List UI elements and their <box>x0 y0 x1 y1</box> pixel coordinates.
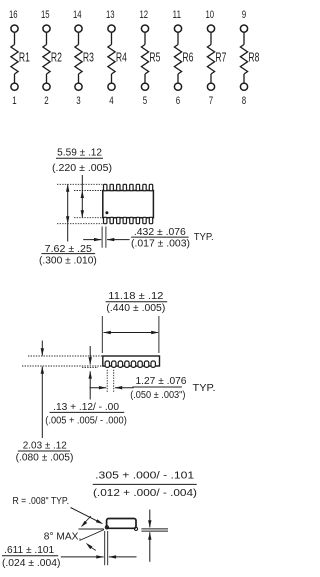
svg-text:11.18 ± .12: 11.18 ± .12 <box>108 291 164 302</box>
svg-text:9: 9 <box>242 9 246 21</box>
fraction bar for .13 dimension <box>50 411 125 413</box>
pin 1 index dot <box>105 211 108 214</box>
package top view pin 3 (bottom row) <box>117 217 120 223</box>
wire from resistor to bottom terminal <box>78 74 80 83</box>
terminal circle pin 15 <box>43 25 50 32</box>
side view lead 4 (end loop) <box>125 361 129 367</box>
svg-text:16: 16 <box>9 9 18 21</box>
wire from top terminal to resistor <box>243 32 245 44</box>
resistor R7 zigzag body <box>207 45 214 75</box>
svg-text:R = .008" TYP.: R = .008" TYP. <box>13 496 70 507</box>
svg-text:15: 15 <box>41 9 50 21</box>
resistor R2 zigzag body <box>43 45 50 75</box>
package top view pin 8 (bottom row) <box>149 217 152 223</box>
wire from top terminal to resistor <box>14 32 16 44</box>
dimension line 7.62mm overall (vertical, left) <box>67 184 69 223</box>
wire from top terminal to resistor <box>78 32 80 44</box>
dimension .13 standoff: upper arrow <box>89 346 91 365</box>
wire from top terminal to resistor <box>111 32 113 44</box>
side view lead 2 (end loop) <box>112 361 116 367</box>
extension line: lead seating plane (short) <box>82 367 98 369</box>
fraction bar for 5.59 dimension <box>56 157 103 159</box>
side view lead 8 (end loop) <box>151 361 155 367</box>
terminal circle pin 3 <box>75 83 82 90</box>
fraction bar for .305 dimension <box>93 483 197 485</box>
resistor R1 network column: pin 16 top, pin 1 bottom <box>9 9 30 107</box>
package top view pin 11 (top row) <box>136 184 139 190</box>
svg-text:(.300 ± .010): (.300 ± .010) <box>39 256 97 267</box>
arrow right of .611 gauge <box>109 556 137 558</box>
seating plane line (upper) <box>141 528 168 530</box>
package top view pin 4 (bottom row) <box>123 217 126 223</box>
svg-text:TYP.: TYP. <box>193 383 216 394</box>
svg-text:.611 ± .101: .611 ± .101 <box>4 545 54 556</box>
extension line: body top edge <box>74 190 102 192</box>
lead corner radius bump right <box>134 527 137 530</box>
fraction bar for 11.18 dimension <box>106 301 168 303</box>
extension line: top pin tips <box>57 183 103 185</box>
dimension .305 lead thickness: lower arrow <box>149 532 151 562</box>
svg-text:(.220 ± .005): (.220 ± .005) <box>52 163 112 174</box>
resistor R2 network column: pin 15 top, pin 2 bottom <box>41 9 62 107</box>
side view lead 7 (end loop) <box>144 361 148 367</box>
horizontal reference line for lead angle <box>79 528 104 530</box>
package top view: IC body outline <box>103 191 154 218</box>
wire from resistor to bottom terminal <box>111 74 113 83</box>
fraction bar for 2.03 dimension <box>18 450 70 452</box>
dimension line 5.59mm body width (vertical) <box>81 175 83 218</box>
resistor R1 zigzag body <box>11 45 18 75</box>
svg-text:13: 13 <box>106 9 115 21</box>
wire from resistor to bottom terminal <box>210 74 212 83</box>
svg-text:14: 14 <box>73 9 82 21</box>
resistor R4 network column: pin 13 top, pin 4 bottom <box>106 9 127 107</box>
arrow left of .432 gauge <box>83 239 101 241</box>
extension line: body left edge (vertical) <box>101 316 103 353</box>
extension line: bottom pin tips <box>57 223 103 225</box>
package top view pin 5 (bottom row) <box>130 217 133 223</box>
svg-text:5: 5 <box>143 95 147 107</box>
dimension line 11.18 horizontal double arrow <box>104 332 159 334</box>
svg-text:R6: R6 <box>182 50 193 64</box>
package side view: body outline <box>103 356 160 366</box>
terminal circle pin 1 <box>11 83 18 90</box>
svg-text:.305 + .000/ - .101: .305 + .000/ - .101 <box>95 470 195 481</box>
arrow left of .611 gauge <box>61 556 104 558</box>
fraction bar for .611 dimension <box>2 555 58 557</box>
package top view pin 14 (top row) <box>117 184 120 190</box>
svg-text:5.59 ± .12: 5.59 ± .12 <box>57 148 102 159</box>
svg-text:R8: R8 <box>248 50 259 64</box>
svg-text:(.024 ± .004): (.024 ± .004) <box>2 558 60 569</box>
wire from resistor to bottom terminal <box>144 74 146 83</box>
wire from top terminal to resistor <box>46 32 48 44</box>
svg-text:2: 2 <box>44 95 48 107</box>
angle arrow upper (points to reference line) <box>85 516 91 523</box>
svg-text:11: 11 <box>173 9 182 21</box>
resistor R8 network column: pin 9 top, pin 8 bottom <box>240 9 259 107</box>
svg-text:(.050 ± .003"): (.050 ± .003") <box>130 390 185 401</box>
package top view pin 16 (top row) <box>104 184 107 190</box>
svg-text:(.005 + .005/ - .000): (.005 + .005/ - .000) <box>45 416 127 427</box>
resistor R8 zigzag body <box>240 45 247 75</box>
wire from resistor to bottom terminal <box>14 74 16 83</box>
resistor R3 network column: pin 14 top, pin 3 bottom <box>73 9 94 107</box>
svg-text:R7: R7 <box>215 50 226 64</box>
resistor R5 network column: pin 12 top, pin 5 bottom <box>140 9 161 107</box>
svg-text:R5: R5 <box>149 50 160 64</box>
resistor R5 zigzag body <box>141 45 148 75</box>
terminal circle pin 14 <box>75 25 82 32</box>
extension line: body bottom edge <box>74 217 102 219</box>
terminal circle pin 16 <box>11 25 18 32</box>
svg-text:.432 ± .076: .432 ± .076 <box>134 227 186 238</box>
angle arrow lower (points to tilted line) <box>88 545 96 551</box>
side view lead 1 (end loop) <box>105 361 109 367</box>
gauge bars: lead pitch 1.27 <box>106 370 108 393</box>
dimension 2.03 body thickness: lower arrow and leader to text <box>41 366 43 438</box>
package top view pin 2 (bottom row) <box>110 217 113 223</box>
resistor R4 zigzag body <box>108 45 115 75</box>
svg-text:.13 + .12/ - .00: .13 + .12/ - .00 <box>53 402 119 413</box>
terminal circle pin 4 <box>108 83 115 90</box>
seating plane line (lower) <box>141 530 168 532</box>
svg-text:(.080 ± .005): (.080 ± .005) <box>16 453 74 464</box>
wire from top terminal to resistor <box>210 32 212 44</box>
dimension 2.03 body thickness: upper arrow <box>41 341 43 356</box>
extension line: body top edge (side view) <box>28 355 103 357</box>
lead corner radius bump left <box>105 526 108 529</box>
terminal circle pin 13 <box>108 25 115 32</box>
side view lead 6 (end loop) <box>138 361 142 367</box>
resistor R3 zigzag body <box>75 45 82 75</box>
arrow left of 1.27 gauge <box>90 387 107 389</box>
terminal circle pin 12 <box>141 25 148 32</box>
dimension .13 standoff: lower arrow and leader to text <box>89 371 91 399</box>
wire from top terminal to resistor <box>177 32 179 44</box>
svg-text:8: 8 <box>242 95 246 107</box>
terminal circle pin 8 <box>240 83 247 90</box>
svg-text:(.012 + .000/ - .004): (.012 + .000/ - .004) <box>93 488 197 499</box>
package top view pin 1 (bottom row) <box>104 217 107 223</box>
svg-text:(.017 ± .003): (.017 ± .003) <box>131 238 190 249</box>
svg-text:12: 12 <box>140 9 149 21</box>
fraction bar for 1.27 dimension <box>132 386 182 388</box>
svg-text:(.440 ± .005): (.440 ± .005) <box>106 303 165 314</box>
package top view pin 7 (bottom row) <box>143 217 146 223</box>
package top view pin 9 (top row) <box>149 184 152 190</box>
side view lead 3 (end loop) <box>118 361 122 367</box>
svg-text:10: 10 <box>206 9 215 21</box>
svg-text:2.03 ± .12: 2.03 ± .12 <box>23 441 67 452</box>
svg-text:TYP.: TYP. <box>194 232 214 243</box>
fraction bar for 7.62 dimension <box>41 253 95 255</box>
svg-text:1: 1 <box>12 95 16 107</box>
gauge bars: lead foot width .611 <box>104 531 106 565</box>
svg-text:3: 3 <box>76 95 80 107</box>
leader from 7.62 dimension down to text <box>67 224 69 242</box>
terminal circle pin 10 <box>207 25 214 32</box>
package top view pin 12 (top row) <box>130 184 133 190</box>
svg-text:R4: R4 <box>116 50 127 64</box>
wire from resistor to bottom terminal <box>177 74 179 83</box>
tilted reference line for lead angle (8 deg) <box>80 530 105 541</box>
leader from radius note to lead corner <box>71 508 102 524</box>
terminal circle pin 6 <box>174 83 181 90</box>
terminal circle pin 2 <box>43 83 50 90</box>
extension line: body right edge (vertical) <box>158 316 160 353</box>
terminal circle pin 11 <box>174 25 181 32</box>
lead foot cross-section rectangle <box>107 519 136 529</box>
terminal circle pin 7 <box>207 83 214 90</box>
svg-text:1.27 ± .076: 1.27 ± .076 <box>136 376 187 387</box>
svg-text:R2: R2 <box>51 50 62 64</box>
wire from resistor to bottom terminal <box>46 74 48 83</box>
resistor R7 network column: pin 10 top, pin 7 bottom <box>206 9 227 107</box>
package top view pin 13 (top row) <box>123 184 126 190</box>
package top view pin 6 (bottom row) <box>136 217 139 223</box>
svg-text:R3: R3 <box>83 50 94 64</box>
arrow right of .432 gauge <box>107 239 130 241</box>
extension line: body bottom edge (side view) <box>22 365 103 367</box>
dimension .305 lead thickness: upper arrow <box>149 510 151 528</box>
terminal circle pin 9 <box>240 25 247 32</box>
fraction bar for .432 dimension <box>131 236 188 238</box>
terminal circle pin 5 <box>141 83 148 90</box>
resistor R6 network column: pin 11 top, pin 6 bottom <box>173 9 194 107</box>
gauge bars: lead width .432 <box>101 227 103 248</box>
svg-text:R1: R1 <box>19 50 30 64</box>
svg-text:6: 6 <box>176 95 180 107</box>
side view lead 5 (end loop) <box>131 361 135 367</box>
svg-text:8° MAX.: 8° MAX. <box>44 531 82 542</box>
wire from resistor to bottom terminal <box>243 74 245 83</box>
resistor R6 zigzag body <box>174 45 181 75</box>
wire from top terminal to resistor <box>144 32 146 44</box>
svg-text:4: 4 <box>109 95 113 107</box>
package top view pin 15 (top row) <box>110 184 113 190</box>
arrow right of 1.27 gauge <box>115 387 134 389</box>
package top view pin 10 (top row) <box>143 184 146 190</box>
svg-text:7: 7 <box>209 95 213 107</box>
